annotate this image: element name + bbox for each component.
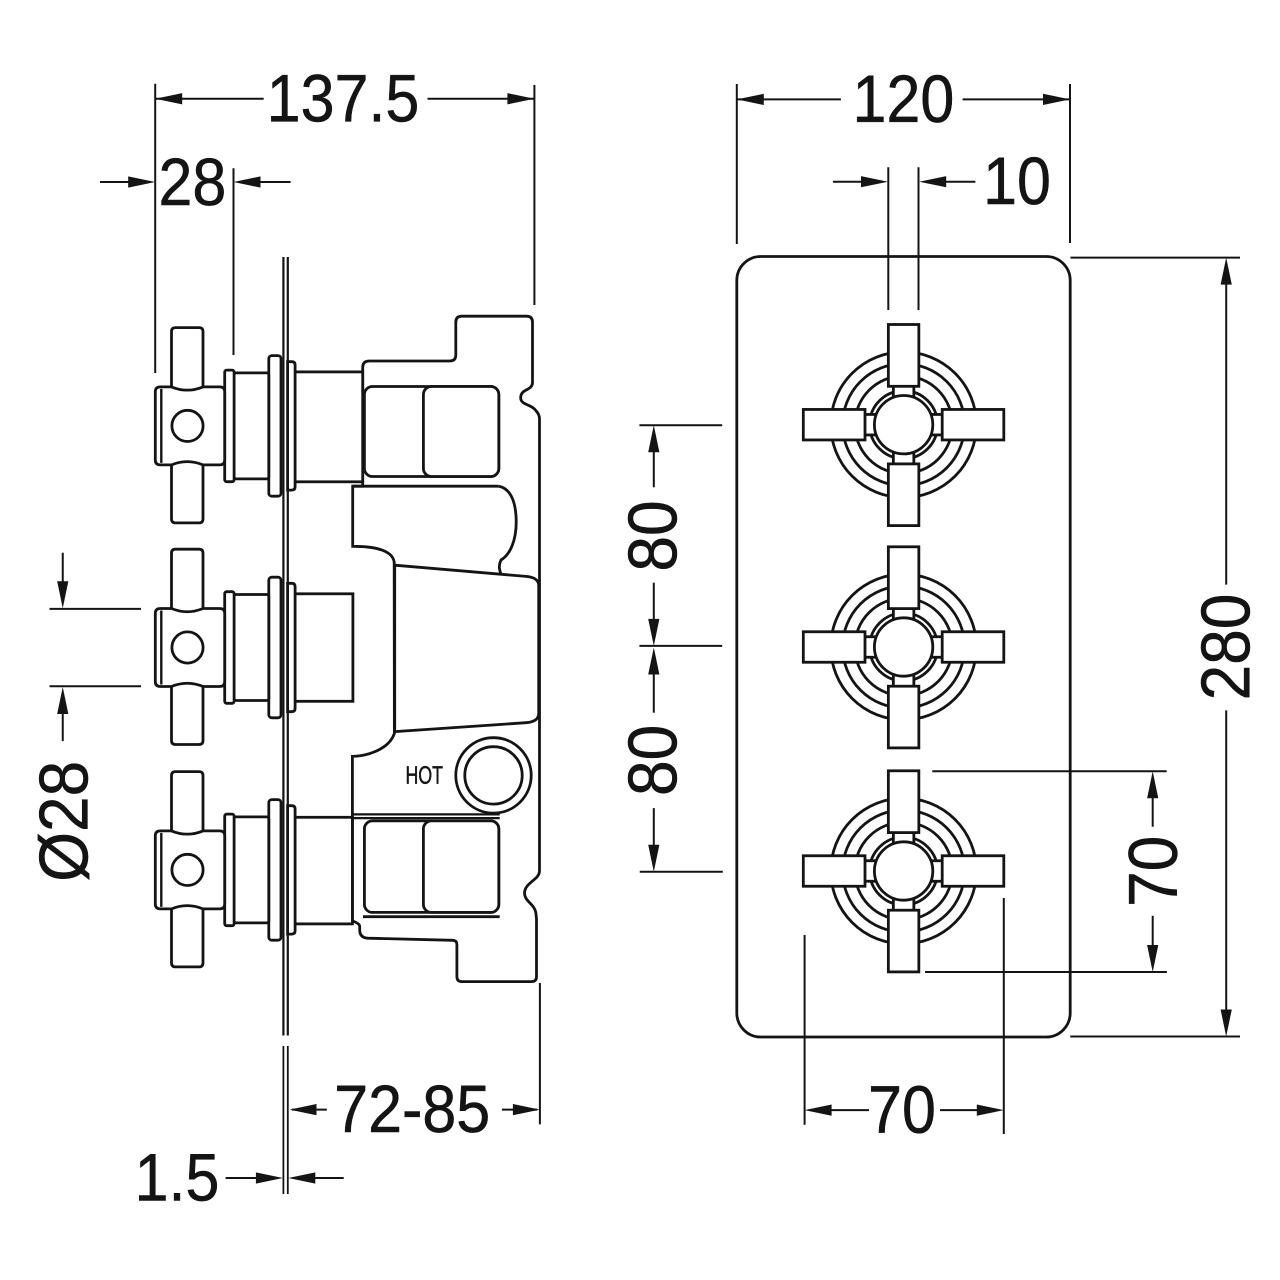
cartridge sleeve (station 2)	[234, 595, 269, 701]
upper cartridge block	[364, 387, 498, 477]
lower ledge line A	[352, 813, 499, 815]
handle ring 4 (station 2)	[843, 586, 965, 708]
dimension 10	[887, 167, 889, 310]
lower cartridge inner block	[423, 821, 498, 913]
cartridge sleeve (station 3)	[234, 817, 269, 923]
upper cartridge inner block	[423, 387, 498, 477]
dimension 80 (upper)	[639, 424, 722, 426]
handle ring 2 (station 2)	[870, 613, 938, 681]
lower cartridge block	[364, 821, 498, 913]
dimension 120	[736, 84, 738, 244]
valve tube (middle station)	[295, 594, 353, 702]
hub chamfer line (station 1)	[160, 389, 162, 463]
handle ring 3 (station 2)	[855, 598, 953, 696]
dimension 70 (horizontal)	[804, 935, 806, 1125]
chamber bulge	[499, 486, 516, 574]
handle ring 3 (station 1)	[855, 376, 953, 474]
backplate (station 2)	[288, 583, 296, 711]
valve tube (bottom station)	[295, 817, 352, 924]
dimension 280	[1071, 257, 1241, 259]
handle knob circle (station 3)	[874, 842, 932, 900]
HOT port outer circle	[456, 738, 531, 813]
cartridge sleeve (station 1)	[234, 373, 269, 479]
dimension 1.5	[282, 1046, 284, 1194]
handle lower arm (station 2)	[172, 686, 204, 745]
handle hub (station 2)	[155, 609, 224, 687]
hub chamfer line (station 2)	[160, 611, 162, 685]
lower ledge line B	[352, 817, 499, 819]
handle knob circle (station 2)	[874, 618, 932, 676]
lower block under-line	[363, 915, 500, 918]
handle lower arm (station 3)	[172, 908, 204, 967]
upper ledge line	[353, 485, 499, 488]
handle ring 5 (station 3)	[831, 798, 977, 944]
handle cross bars (station 3)	[888, 771, 919, 833]
wall plate front line	[282, 257, 284, 1036]
handle ring 2 (station 1)	[870, 391, 938, 459]
valve tube (top station)	[295, 372, 363, 482]
handle upper arm (station 3)	[172, 772, 204, 832]
handle ring 5 (station 1)	[831, 352, 977, 498]
hub chamfer line (station 3)	[160, 833, 162, 907]
backplate (station 1)	[288, 362, 296, 490]
handle cross bars (station 1)	[888, 325, 919, 387]
escutcheon plate (station 1)	[269, 356, 281, 497]
escutcheon collar (station 3)	[225, 814, 234, 926]
handle hub (station 1)	[155, 387, 224, 465]
handle cross bars (station 2)	[888, 547, 919, 609]
front plate	[737, 257, 1070, 1038]
handle ring 2 (station 3)	[870, 837, 938, 905]
valve body (side view) outline	[352, 316, 539, 981]
handle ring 4 (station 3)	[843, 810, 965, 932]
handle hub (station 3)	[155, 831, 224, 909]
dimension 80 (lower)	[653, 672, 655, 713]
hub screw circle (station 1)	[172, 410, 203, 441]
handle lower arm (station 1)	[172, 464, 204, 523]
escutcheon collar (station 1)	[225, 370, 234, 482]
dimension Ø28	[50, 608, 142, 610]
HOT label	[407, 766, 443, 784]
dimension 70 (vertical)	[932, 770, 1166, 772]
handle ring 3 (station 3)	[855, 822, 953, 920]
dimension 137.5	[154, 84, 156, 373]
backplate (station 3)	[288, 806, 296, 934]
HOT port inner circle	[465, 747, 522, 804]
escutcheon collar (station 2)	[225, 592, 234, 704]
handle ring 4 (station 1)	[843, 364, 965, 486]
hub screw circle (station 3)	[172, 854, 203, 885]
wall plate back line	[287, 257, 289, 1036]
middle block	[395, 565, 539, 731]
hub screw circle (station 2)	[172, 632, 203, 663]
escutcheon plate (station 3)	[269, 800, 281, 941]
handle upper arm (station 2)	[172, 549, 204, 609]
handle upper arm (station 1)	[172, 328, 204, 388]
dimension 28	[233, 168, 235, 355]
handle ring 5 (station 2)	[831, 574, 977, 720]
handle knob circle (station 1)	[874, 396, 932, 454]
dimension 72-85	[539, 983, 541, 1124]
escutcheon plate (station 2)	[269, 577, 281, 718]
